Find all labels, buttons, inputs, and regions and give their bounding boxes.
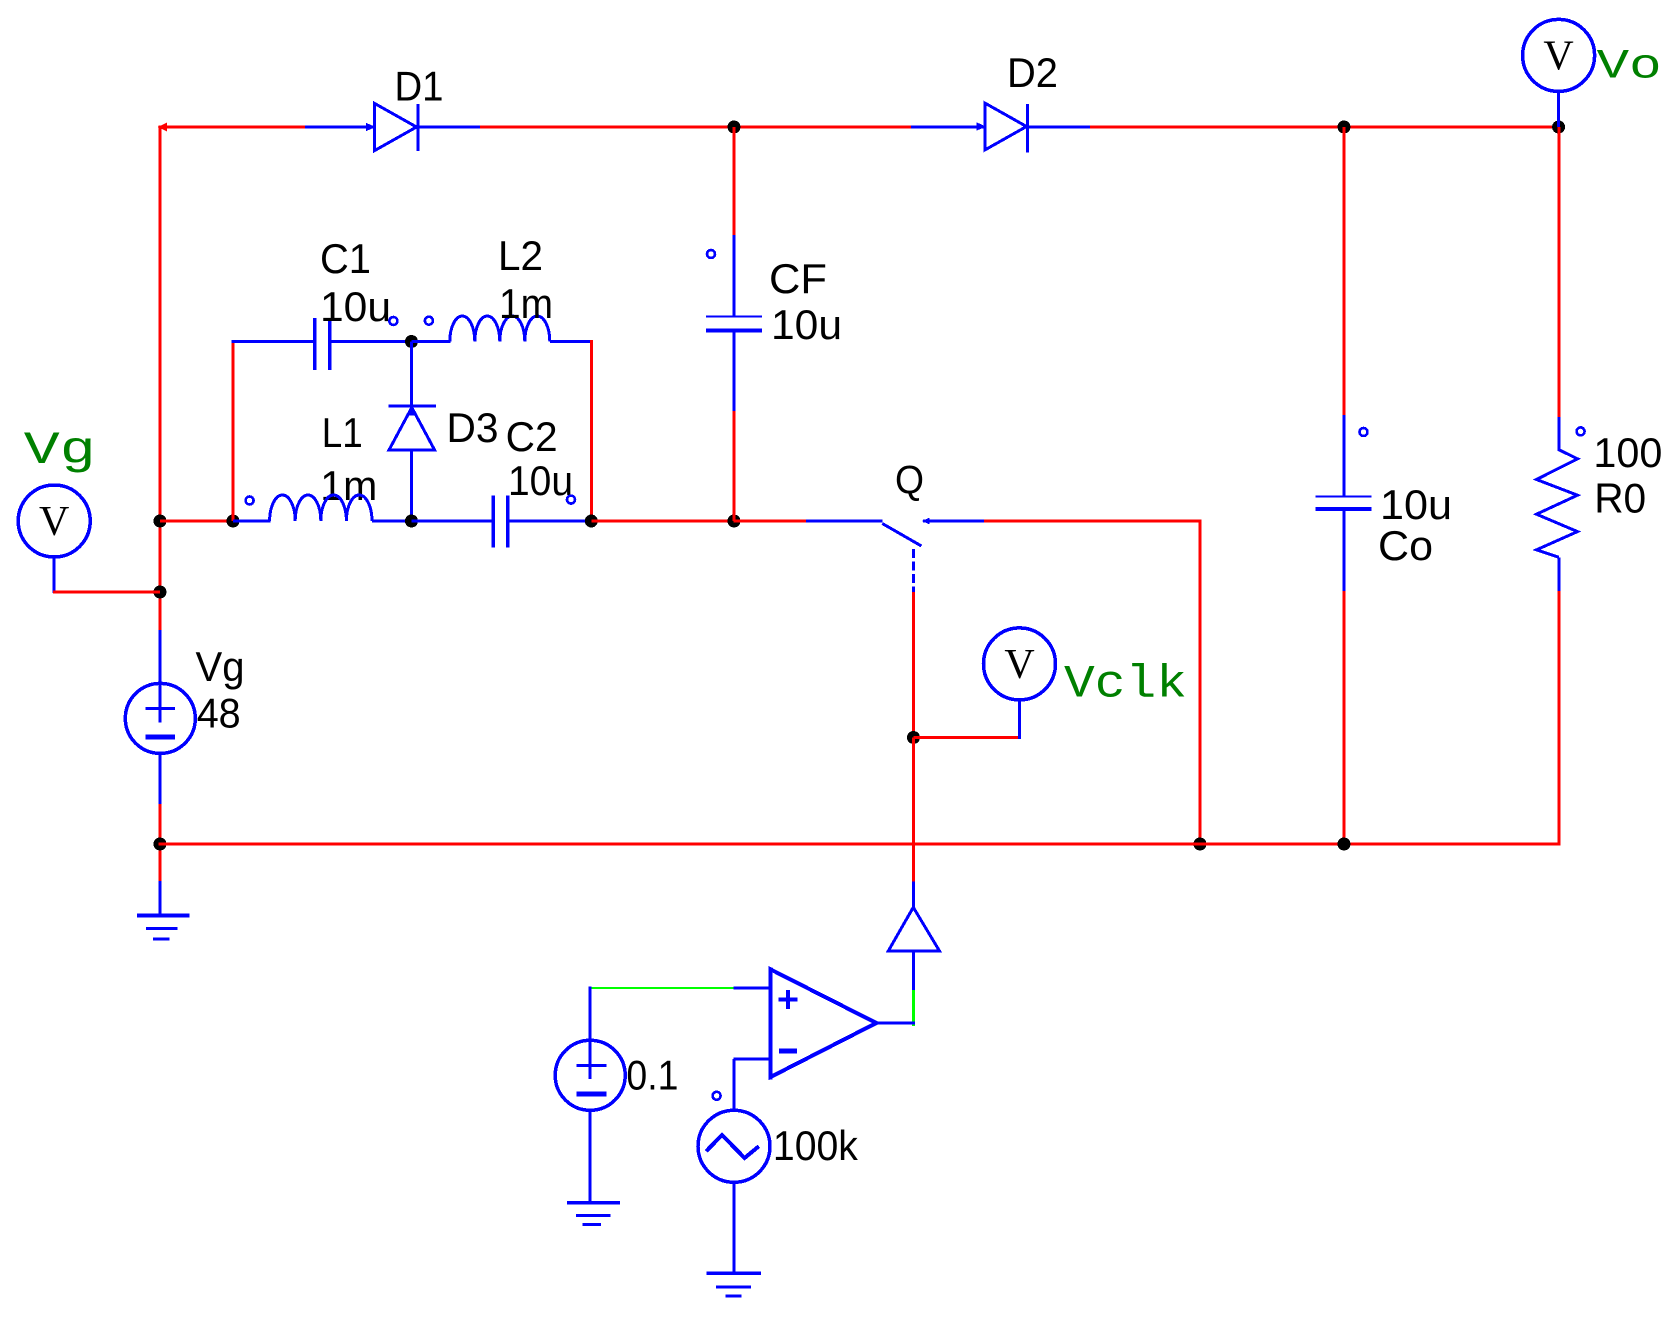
ground carrier [707,1273,762,1296]
marker dot CF [707,250,715,258]
node CF top [728,121,741,134]
wire C2 left blue [412,520,495,523]
marker dot L2 [425,317,433,325]
wire gate control blue [912,882,915,909]
wire carrier stem up blue [733,1059,736,1111]
capacitor C2 [493,496,507,548]
wire Vclk tap red [914,736,1020,739]
capacitor CF [706,317,762,331]
wire R0 top blue [1558,417,1561,451]
wire C2 right blue [508,520,592,523]
svg-text:D1: D1 [395,63,444,110]
resistor R0 [1537,450,1578,558]
node Vo top [1552,121,1565,134]
wire D3 stem top blue [410,342,413,408]
wire switch left blue [806,520,882,523]
diode D3 [389,406,436,450]
switch Q gate dashes [912,549,915,592]
svg-text:10u: 10u [320,283,391,330]
wire carrier bottom blue [733,1182,736,1274]
svg-text:Vg: Vg [196,643,245,690]
wire mid row red to switch [734,520,808,523]
svg-text:Q: Q [895,459,924,503]
svg-text:L2: L2 [498,232,543,279]
wire source Vg stem bottom blue [159,753,162,805]
capacitor C1 [315,318,330,370]
wire gate control red lower [912,738,915,883]
wire inner loop right vertical red [590,340,593,521]
capacitor Co [1316,497,1372,510]
wire inner loop left vertical red [232,340,235,521]
svg-text:V: V [1543,34,1573,80]
wire L2 right blue [550,340,592,343]
wire top rail red left [159,126,307,129]
wire mid row red to CF [591,520,734,523]
voltmeter Vclk probe [984,628,1056,700]
node Vclk tap [907,731,920,744]
node bottom-left [154,838,167,851]
marker dot R0 [1577,427,1585,435]
ground 0.1 [567,1203,620,1225]
wire Co bottom red [1343,591,1346,844]
wire buffer to output green [912,990,915,1026]
triangle-wave source 100k [698,1110,770,1182]
DC source 0.1 [555,1040,625,1110]
svg-text:10u: 10u [1380,481,1452,528]
wire CF top blue [733,235,736,317]
wire voltmeter Vg stem blue [53,557,56,593]
node C2 right [585,515,598,528]
svg-text:Co: Co [1378,522,1433,569]
svg-text:C2: C2 [506,413,558,460]
marker dot Co [1360,428,1368,436]
wire 0.1 source bottom blue [589,1110,592,1204]
diode D1 [366,103,418,152]
wire left rail red [159,126,162,631]
svg-text:D2: D2 [1007,49,1058,96]
svg-text:1m: 1m [499,280,553,327]
wire top rail blue into D2 [911,126,985,129]
wire comparator plus input blue [734,986,772,989]
voltmeter Vo probe [1523,19,1595,91]
node Co rail [1338,838,1351,851]
wire 0.1 source stem blue [589,987,592,1080]
wire top rail blue after D2 [1028,126,1092,129]
wire top rail blue into D1 [305,126,376,129]
wire L2 left blue [412,340,451,343]
svg-text:R0: R0 [1594,475,1646,522]
svg-text:Vg: Vg [24,425,96,477]
marker dot carrier [713,1092,721,1100]
wire right branch vertical red [1199,521,1202,844]
voltmeter Vg probe [18,485,90,557]
wire R0 top red [1558,127,1561,418]
ground Vg [137,916,190,939]
switch Q blade [882,524,921,547]
wire D3 stem bottom blue [410,450,413,521]
node D3 top [405,335,418,348]
svg-text:D3: D3 [447,404,499,451]
wire comparator minus input blue [734,1057,772,1060]
node right branch rail [1194,838,1207,851]
switch Q right contact [922,518,985,525]
wire top rail corner arrow [158,123,168,132]
node D3 bottom [405,515,418,528]
comparator U1 [771,968,877,1080]
svg-text:0.1: 0.1 [626,1052,678,1099]
svg-text:CF: CF [769,255,827,302]
gate driver buffer [888,907,939,951]
svg-text:Vclk: Vclk [1064,659,1187,711]
wire comparator output blue [876,1022,915,1025]
wire source Vg stem top blue [159,630,162,722]
svg-text:L1: L1 [322,409,363,456]
inductor L1 [270,495,372,521]
svg-text:100: 100 [1593,429,1662,476]
wire comparator plus input green [590,987,735,989]
svg-text:10u: 10u [771,301,842,348]
voltage source Vg 48 [125,683,195,753]
wire mid row red left [160,520,234,523]
wire ground stem blue [159,881,162,917]
marker dot L1 [246,497,254,505]
wire bottom rail red [159,843,1561,846]
wire source Vg to rail red [159,804,162,882]
wire CF top red [733,127,736,236]
wire Co bottom blue [1343,509,1346,592]
wire C1 left blue [232,340,316,343]
node Co top [1338,121,1351,134]
svg-text:V: V [1004,642,1034,688]
svg-text:48: 48 [197,690,241,737]
wire buffer to output blue [912,951,915,991]
node L1 left [227,515,240,528]
wire L1 left blue [233,520,271,523]
wire R0 bottom red [1558,591,1561,846]
wire R0 bottom blue [1558,557,1561,592]
wire gate control red upper [912,592,915,739]
wire top rail red middle [480,126,912,129]
wire Co top blue [1343,415,1346,498]
wire CF bottom blue [733,331,736,412]
diode D2 [977,102,1028,153]
svg-text:Vo: Vo [1597,43,1662,91]
wire Vo stem blue [1557,91,1560,127]
svg-text:100k: 100k [773,1122,859,1169]
wire top rail red right [1090,126,1560,129]
wire voltmeter Vg tap red [53,591,160,594]
node junction left-mid [154,515,167,528]
wire Co top red [1343,127,1346,416]
wire CF bottom red [733,411,736,521]
wire switch right red [984,520,1202,523]
marker dot C1 [389,317,397,325]
svg-text:C1: C1 [320,235,371,282]
node voltmeter tap [154,586,167,599]
svg-text:V: V [39,499,69,545]
node CF bottom [728,515,741,528]
wire Vclk stem blue [1018,700,1021,739]
wire C1 right blue [330,340,413,343]
wire L1 right blue [372,520,412,523]
wire top rail blue after D1 [418,126,481,129]
inductor L2 [450,316,550,341]
svg-text:10u: 10u [508,457,573,504]
marker dot C2 [567,496,575,504]
